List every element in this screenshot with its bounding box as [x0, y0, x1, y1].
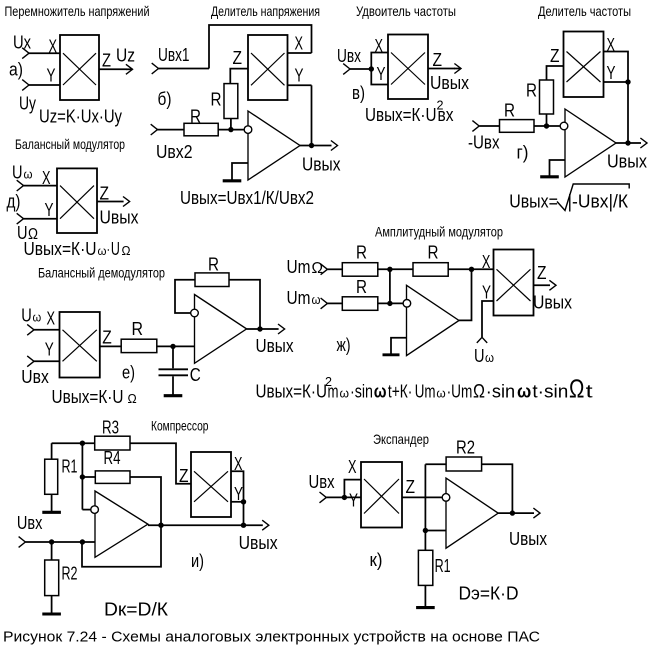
output arrow е — [278, 324, 285, 334]
svg-text:X: X — [375, 36, 384, 56]
junction output node е — [257, 326, 262, 331]
svg-text:Uвых: Uвых — [239, 533, 278, 553]
svg-text:Um: Um — [287, 257, 311, 277]
svg-text:X: X — [42, 168, 51, 188]
svg-text:ω: ω — [98, 244, 107, 258]
svg-text:ω: ω — [312, 292, 321, 307]
svg-text:Y: Y — [377, 64, 386, 84]
svg-text:Uвх: Uвх — [21, 367, 49, 387]
svg-text:X: X — [49, 37, 58, 57]
wire X stub U4 to feedback — [604, 52, 629, 144]
svg-text:·sin: ·sin — [350, 382, 373, 402]
svg-text:Uвх: Uвх — [309, 472, 335, 492]
wire Y input U1 — [29, 84, 60, 86]
svg-text:ω: ω — [340, 386, 350, 401]
wire Uвх2 input — [158, 129, 185, 131]
svg-text:ω: ω — [517, 382, 531, 402]
svg-text:R: R — [132, 319, 144, 339]
svg-text:а): а) — [9, 60, 23, 80]
svg-text:ω: ω — [33, 310, 42, 325]
junction input node к — [342, 495, 347, 500]
svg-text:вх: вх — [438, 105, 454, 125]
multiplier U4 — [564, 32, 604, 98]
svg-text:Ux: Ux — [13, 33, 31, 53]
junction output node к — [510, 510, 515, 515]
svg-text:Ω: Ω — [473, 382, 485, 403]
multiplier U7 — [494, 250, 534, 316]
op-amp A6 — [446, 478, 498, 548]
multiplier U3 — [388, 35, 428, 100]
wire to R1 top к — [424, 531, 426, 551]
svg-text:Uвых=К·U: Uвых=К·U — [24, 239, 97, 259]
wire output A1 — [300, 145, 332, 147]
inverting input circle A2 — [560, 122, 568, 130]
output arrow Uвых б — [331, 141, 338, 151]
wire R2 to ground — [51, 596, 53, 614]
svg-text:R: R — [356, 277, 367, 297]
resistor R3 — [95, 436, 130, 450]
wire Y stub U2 — [288, 84, 312, 86]
wire R to op-amp input е — [157, 345, 195, 347]
ground symbol б — [231, 179, 233, 181]
wire output A4 to X node — [459, 269, 472, 320]
output arrow в — [454, 64, 461, 74]
wire to R1 top — [51, 443, 53, 459]
input arrow Uвх и — [19, 537, 26, 548]
wire non-inverting input A1 to ground — [232, 163, 248, 179]
svg-text:Экспандер: Экспандер — [373, 431, 429, 447]
wire R to summing node — [230, 119, 232, 130]
svg-text:U: U — [21, 306, 32, 326]
svg-text:·: · — [107, 239, 110, 259]
svg-text:Перемножитель напряжений: Перемножитель напряжений — [5, 3, 150, 19]
svg-text:к): к) — [370, 550, 383, 570]
svg-text:Uвх1: Uвх1 — [158, 45, 190, 65]
ground symbol г — [549, 175, 551, 177]
wire X input U5 — [24, 185, 58, 187]
svg-text:Z: Z — [433, 50, 443, 70]
svg-text:е): е) — [122, 363, 135, 383]
wire Z output U3 — [428, 68, 455, 70]
op-amp A4 — [407, 285, 460, 355]
svg-text:U: U — [12, 163, 23, 183]
wire inverting bus vertical и — [81, 443, 83, 509]
svg-text:Uвых: Uвых — [302, 155, 341, 175]
wire output A2 — [616, 142, 641, 144]
wire output A3 — [247, 328, 279, 330]
svg-text:t+К·: t+К· — [388, 382, 413, 402]
svg-text:Uвх2: Uвх2 — [156, 142, 193, 162]
output arrow г — [640, 138, 647, 148]
wire R to R feedback node — [378, 268, 413, 270]
svg-text:R2: R2 — [62, 564, 78, 584]
wire R1 to ground к — [424, 585, 426, 607]
inverting input circle A4 — [403, 300, 411, 308]
input arrow Uвх к — [320, 492, 327, 503]
wire Y input U6 — [34, 360, 60, 362]
junction inverting bus bottom ж — [387, 301, 392, 306]
ground symbol ж — [390, 354, 392, 355]
svg-text:m: m — [328, 382, 339, 402]
input arrow UmΩ — [321, 264, 328, 275]
junction output bus и — [158, 523, 163, 528]
wire non-inverting input A6 — [425, 530, 446, 532]
wire R4 left — [82, 476, 95, 478]
input arrow Ux — [22, 48, 29, 59]
wire output A5 — [148, 524, 263, 526]
svg-text:R: R — [211, 90, 222, 110]
junction summing node б — [228, 127, 233, 132]
svg-text:Y: Y — [47, 66, 56, 86]
svg-text:Ω: Ω — [128, 391, 137, 406]
svg-text:Делитель напряжения: Делитель напряжения — [211, 3, 320, 19]
wire inverting bus top left и — [52, 442, 95, 444]
svg-text:Y: Y — [45, 340, 54, 360]
svg-text:R1: R1 — [62, 457, 78, 477]
junction input node в — [369, 66, 374, 71]
wire R2 to output к — [482, 464, 513, 513]
input arrow UΩ д — [17, 213, 24, 224]
svg-text:Uвых=: Uвых= — [509, 192, 558, 212]
wire Z output U6 — [100, 345, 121, 347]
wire Umω input — [327, 302, 342, 304]
svg-text:R2: R2 — [456, 438, 475, 458]
wire Z output U1 — [99, 68, 127, 70]
svg-text:Dэ=К·D: Dэ=К·D — [459, 584, 519, 604]
junction R4 node и — [80, 474, 85, 479]
svg-text:ω: ω — [374, 382, 387, 402]
svg-text:Z: Z — [102, 51, 111, 71]
svg-text:Z: Z — [550, 46, 560, 66]
wire Y input U7 from Uω — [482, 301, 494, 337]
input arrow Uвх е — [27, 356, 34, 367]
svg-text:U: U — [474, 346, 485, 366]
svg-text:ω: ω — [24, 167, 33, 182]
resistor R2 и — [45, 560, 59, 596]
svg-text:Uy: Uy — [19, 94, 36, 114]
wire X stub U2 — [288, 52, 312, 54]
output arrow ж — [549, 280, 556, 290]
svg-text:R: R — [208, 255, 219, 275]
wire summing node to op-amp — [218, 129, 244, 131]
resistor R horizontal г — [500, 120, 535, 133]
wire Y to output node — [311, 85, 313, 145]
svg-text:X: X — [348, 457, 357, 477]
inverting input circle A3 — [191, 309, 199, 317]
multiplier U5 — [57, 168, 97, 233]
resistor R vertical г — [540, 80, 554, 114]
svg-text:Z: Z — [179, 466, 189, 486]
svg-text:Y: Y — [45, 200, 54, 220]
wire feedback vertical к — [424, 464, 426, 530]
resistor R feedback ж — [413, 263, 448, 277]
junction X node ж — [469, 267, 474, 272]
junction R3 node и — [80, 441, 85, 446]
svg-text:U: U — [111, 239, 120, 259]
svg-text:Uвых: Uвых — [509, 529, 547, 549]
svg-text:и): и) — [191, 551, 204, 571]
wire Z output U5 — [97, 201, 124, 203]
svg-text:X: X — [47, 309, 56, 329]
svg-text:Uz: Uz — [116, 46, 135, 66]
multiplier U1 — [60, 35, 99, 100]
svg-text:Uвых=К·U: Uвых=К·U — [52, 387, 124, 407]
wire Y stub U4 — [604, 81, 629, 83]
multiplier U2 — [248, 35, 288, 100]
svg-text:R: R — [428, 243, 439, 263]
svg-text:·sin: ·sin — [486, 382, 515, 402]
svg-text:Ω: Ω — [569, 374, 584, 404]
svg-text:t·sin: t·sin — [532, 382, 568, 402]
svg-text:R: R — [504, 101, 515, 121]
wire -Uвх input — [479, 125, 499, 127]
svg-text:C: C — [190, 365, 201, 385]
junction Y feedback node — [625, 79, 630, 84]
wire input to X input к — [344, 480, 361, 498]
svg-text:X: X — [482, 252, 491, 272]
svg-text:Y: Y — [349, 491, 358, 511]
svg-text:Z: Z — [102, 328, 112, 348]
svg-text:|-Uвх|/К: |-Uвх|/К — [568, 192, 629, 212]
svg-text:Uвх: Uвх — [337, 46, 361, 66]
wire R to inverting input ж — [378, 302, 404, 304]
svg-text:Z: Z — [100, 184, 110, 204]
svg-text:в): в) — [352, 83, 365, 103]
junction output node г — [625, 140, 630, 145]
resistor R4 — [95, 471, 130, 484]
wire R4 right to output bus — [82, 477, 161, 567]
junction inverting bus top ж — [387, 267, 392, 272]
wire Z stub U4 — [547, 66, 564, 80]
svg-text:Uвых=К·U: Uвых=К·U — [256, 382, 328, 402]
wire R feedback to X node — [448, 268, 493, 270]
svg-text:ж): ж) — [337, 335, 351, 355]
svg-text:R: R — [356, 243, 367, 263]
output arrow Uz — [126, 64, 133, 74]
svg-text:X: X — [607, 35, 616, 55]
wire non-inverting input A4 to ground — [391, 338, 407, 354]
wire UmΩ input — [327, 268, 342, 270]
wire feedback top to R2 — [425, 463, 446, 465]
svg-text:Y: Y — [482, 283, 491, 303]
wire X stub U8 to output — [231, 471, 244, 525]
svg-text:Компрессор: Компрессор — [151, 418, 209, 434]
wire Uвх input в — [350, 68, 371, 70]
svg-text:Z: Z — [233, 48, 243, 68]
svg-text:t: t — [586, 382, 593, 402]
svg-text:Uвых: Uвых — [430, 73, 469, 93]
wire Uвх input к — [326, 496, 361, 498]
output arrow и — [262, 520, 269, 530]
wire feedback right е — [229, 280, 260, 329]
multiplier U9 — [361, 462, 402, 528]
resistor R (horizontal, block б) — [184, 123, 218, 136]
capacitor C — [159, 368, 189, 370]
resistor R input UmΩ — [342, 263, 378, 277]
svg-text:Uвых: Uвых — [533, 293, 572, 313]
junction Y node U8 — [241, 499, 246, 504]
svg-text:·Um: ·Um — [447, 382, 473, 402]
wire input split to X and Y — [371, 53, 388, 85]
svg-text:б): б) — [158, 89, 172, 109]
resistor R (vertical, block б) — [224, 84, 238, 119]
feedback resistor R е — [195, 273, 229, 287]
wire X input U6 — [34, 329, 60, 331]
input arrow Uвх в — [343, 64, 350, 75]
wire R vertical to summing node г — [546, 114, 548, 126]
svg-text:Um: Um — [287, 288, 311, 308]
wire Uвх1 input — [159, 68, 210, 70]
junction feedback node и — [80, 539, 85, 544]
svg-text:Uz=K·Ux·Uy: Uz=K·Ux·Uy — [39, 107, 122, 127]
op-amp A1 — [248, 111, 300, 180]
wire capacitor to ground — [172, 376, 174, 395]
svg-text:Y: Y — [295, 66, 304, 86]
svg-text:Удвоитель частоты: Удвоитель частоты — [356, 3, 456, 19]
input arrow Uω е — [27, 324, 34, 335]
svg-text:R3: R3 — [102, 418, 119, 438]
junction R2 node и — [49, 539, 54, 544]
wire R3 right to Z input — [130, 443, 191, 484]
svg-text:-Uвх: -Uвх — [468, 133, 500, 153]
wire to R2 top — [51, 542, 53, 560]
svg-text:Ω: Ω — [122, 243, 131, 258]
wire feedback left е — [175, 280, 195, 313]
junction RC node е — [170, 344, 175, 349]
resistor R1 и — [45, 459, 58, 494]
resistor R2 к — [446, 457, 482, 471]
resistor R input Umω — [342, 297, 378, 311]
svg-text:г): г) — [517, 143, 529, 163]
input arrow Umω — [321, 298, 328, 309]
wire X input U1 — [29, 52, 60, 54]
op-amp A3 — [195, 295, 247, 364]
svg-text:Dк=D/К: Dк=D/К — [104, 600, 169, 620]
junction X/Y to output node — [241, 523, 246, 528]
svg-text:Uвых: Uвых — [256, 336, 294, 356]
formula radical sign г — [557, 184, 629, 211]
output arrow к — [533, 508, 540, 518]
svg-text:X: X — [234, 454, 243, 474]
svg-text:Амплитудный модулятор: Амплитудный модулятор — [375, 224, 503, 240]
wire non-inverting input A2 to ground — [550, 160, 566, 175]
input arrow Uω up — [477, 337, 487, 343]
input arrow Uвх2 — [151, 124, 158, 135]
svg-text:Балансный демодулятор: Балансный демодулятор — [38, 265, 165, 281]
wire Y stub U8 — [231, 501, 244, 503]
svg-text:Uвых: Uвых — [100, 208, 139, 228]
svg-text:R: R — [190, 107, 201, 127]
svg-text:Uвых=К·U: Uвых=К·U — [365, 105, 437, 125]
op-amp A2 — [565, 109, 616, 177]
wire Z stub U2 — [230, 69, 248, 84]
svg-text:Z: Z — [406, 477, 416, 497]
input arrow Uвх1 — [152, 63, 159, 74]
svg-text:R: R — [526, 81, 537, 101]
svg-text:д): д) — [7, 192, 21, 212]
wire Z output U7 — [534, 284, 551, 286]
wire R1 to ground — [51, 494, 53, 512]
wire RC node down to capacitor — [172, 346, 174, 368]
svg-text:Uвых=Uвх1/К/Uвх2: Uвых=Uвх1/К/Uвх2 — [180, 188, 314, 208]
wire summing node to op-amp г — [534, 125, 560, 127]
junction summing node г — [544, 123, 549, 128]
svg-text:Y: Y — [607, 63, 616, 83]
svg-text:ω: ω — [485, 350, 494, 365]
multiplier U8 — [191, 452, 231, 517]
input arrow Uω д — [17, 180, 24, 191]
multiplier U6 — [60, 312, 100, 378]
wire Y input U5 — [24, 218, 58, 220]
svg-text:Uвх: Uвх — [17, 513, 43, 533]
wire Uвх1 to X input over top — [209, 25, 312, 69]
wire output A6 — [498, 512, 534, 514]
wire Z output U9 to op-amp — [402, 496, 442, 498]
svg-text:R4: R4 — [104, 448, 121, 468]
inverting input circle A1 — [244, 126, 252, 134]
svg-text:X: X — [295, 34, 304, 54]
resistor R series е — [121, 339, 157, 352]
junction non-inverting node к — [423, 528, 428, 533]
op-amp A5 — [95, 491, 148, 557]
svg-text:Балансный модулятор: Балансный модулятор — [15, 136, 125, 152]
svg-text:R1: R1 — [435, 556, 451, 576]
inverting input circle A6 — [442, 494, 450, 502]
junction output node б — [309, 143, 314, 148]
svg-text:Um: Um — [415, 382, 436, 402]
svg-text:Делитель частоты: Делитель частоты — [538, 3, 631, 19]
input arrow -Uвх — [472, 121, 479, 132]
wire bus to inverting input и — [82, 509, 90, 511]
inverting input circle A5 — [91, 506, 99, 514]
wire Uвх to non-inverting input — [25, 541, 95, 543]
input arrow Uy — [22, 80, 29, 91]
output arrow д — [123, 197, 130, 207]
wire inverting bus ж — [389, 269, 391, 303]
svg-text:Z: Z — [537, 263, 547, 283]
svg-text:Рисунок 7.24 - Схемы аналоговы: Рисунок 7.24 - Схемы аналоговых электрон… — [3, 629, 540, 646]
resistor R1 к — [418, 550, 432, 585]
svg-text:ω: ω — [436, 386, 445, 401]
svg-text:Uвых: Uвых — [607, 152, 647, 172]
